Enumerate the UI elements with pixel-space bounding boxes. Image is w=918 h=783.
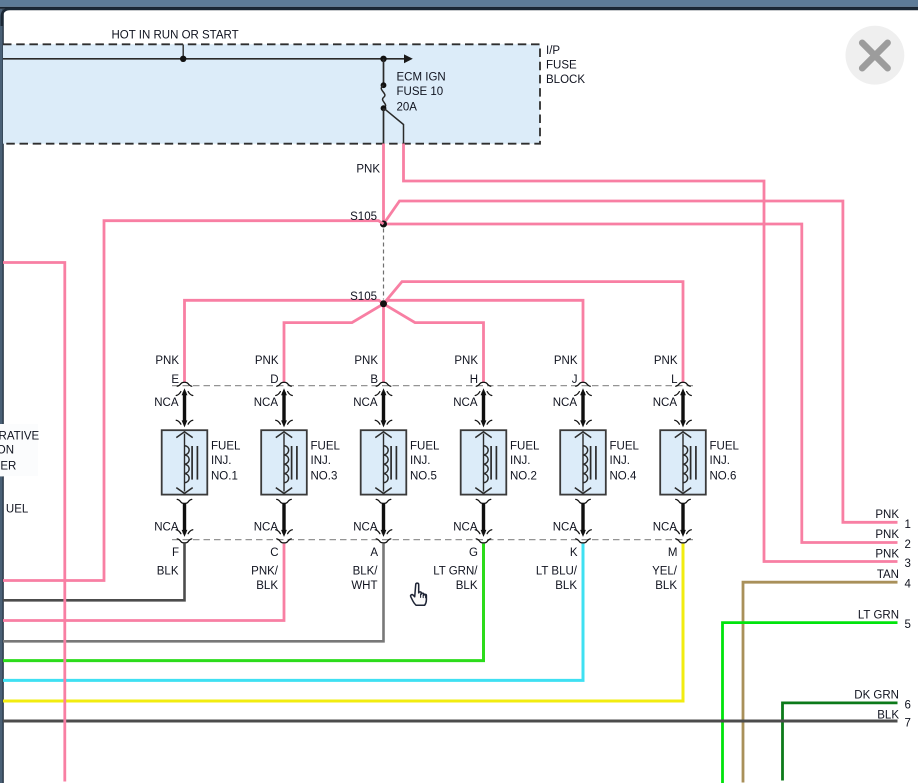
wire: fuse output right diagonal xyxy=(384,109,403,144)
label fuse ECM IGN FUSE 10 20A xyxy=(397,71,446,113)
svg-text:LT GRN/: LT GRN/ xyxy=(433,565,478,577)
svg-text:YEL/: YEL/ xyxy=(652,565,678,577)
wire LT GRN to pin 5 xyxy=(723,623,898,783)
wire BLK from pin F xyxy=(3,544,185,601)
splice S105 dashed link xyxy=(383,229,385,300)
svg-text:RATIVE: RATIVE xyxy=(0,431,40,443)
svg-text:TAN: TAN xyxy=(877,569,899,581)
connector pin G (bottom male) xyxy=(475,530,492,537)
wire: injector NO.6 return xyxy=(681,504,684,534)
wire: injector NO.1 return xyxy=(183,504,186,534)
fuel injector NO.6 xyxy=(660,430,706,494)
svg-text:NCA: NCA xyxy=(453,521,478,533)
svg-text:INJ.: INJ. xyxy=(311,455,331,467)
connector pin D (top female) xyxy=(277,382,292,386)
wire LT BLU/BLK from pin K xyxy=(3,544,583,681)
node: stub junction xyxy=(180,56,186,62)
svg-text:S105: S105 xyxy=(350,211,377,223)
injector NO.1 top plug xyxy=(176,420,193,427)
connector pin M (bottom female) xyxy=(676,539,691,543)
wire PNK/BLK from pin C xyxy=(3,544,284,621)
svg-text:E: E xyxy=(171,374,179,386)
wire: injector NO.2 coil feed xyxy=(482,392,485,422)
svg-text:FUEL: FUEL xyxy=(610,440,640,452)
connector pin K (bottom female) xyxy=(576,539,591,543)
injector NO.3 bottom socket xyxy=(277,499,292,503)
connector pin D (top male) xyxy=(276,388,293,395)
svg-text:NCA: NCA xyxy=(453,397,478,409)
fuel injector NO.2 xyxy=(461,430,507,494)
connector pin E (top male) xyxy=(176,388,193,395)
connector pin M (bottom male) xyxy=(675,530,692,537)
svg-text:INJ.: INJ. xyxy=(410,455,430,467)
svg-text:6: 6 xyxy=(905,699,911,711)
svg-text:PNK: PNK xyxy=(454,355,478,367)
svg-text:4: 4 xyxy=(905,579,912,591)
svg-text:FUEL: FUEL xyxy=(311,440,341,452)
labels column NO.5 xyxy=(351,355,440,592)
fuel injector NO.1 xyxy=(162,430,208,494)
svg-text:FUEL: FUEL xyxy=(510,440,540,452)
svg-text:D: D xyxy=(270,374,278,386)
svg-text:FUSE: FUSE xyxy=(546,60,577,72)
node: fuse tap junction xyxy=(380,56,386,62)
wire PNK: S105 to injector pin D xyxy=(284,304,384,382)
svg-text:BLK: BLK xyxy=(456,580,478,592)
svg-text:UEL: UEL xyxy=(6,503,29,515)
svg-text:NO.4: NO.4 xyxy=(610,470,637,482)
injector NO.6 bottom socket xyxy=(676,499,691,503)
labels column NO.6 xyxy=(652,355,739,592)
window title bar xyxy=(0,0,918,9)
svg-text:FUEL: FUEL xyxy=(211,440,241,452)
wire PNK: fuse to splice S105 xyxy=(382,144,385,225)
connector pin F (bottom male) xyxy=(176,530,193,537)
svg-text:PNK: PNK xyxy=(654,355,678,367)
svg-text:FUSE 10: FUSE 10 xyxy=(397,86,444,98)
svg-text:NO.5: NO.5 xyxy=(410,470,437,482)
connector pin L (top female) xyxy=(676,382,691,386)
label I/P FUSE BLOCK xyxy=(546,45,585,86)
svg-text:S105: S105 xyxy=(350,291,377,303)
connector dashed line top row xyxy=(172,385,695,387)
svg-text:NO.3: NO.3 xyxy=(311,470,338,482)
connector pin B (top female) xyxy=(376,382,391,386)
labels column NO.4 xyxy=(536,355,640,592)
injector NO.4 top plug xyxy=(575,420,592,427)
svg-text:J: J xyxy=(572,374,578,386)
wire: injector NO.5 coil feed xyxy=(382,392,385,422)
svg-text:PNK: PNK xyxy=(554,355,578,367)
svg-text:NCA: NCA xyxy=(353,397,378,409)
wire: injector NO.3 return xyxy=(282,504,285,534)
svg-text:F: F xyxy=(172,547,179,559)
wire PNK: S105 to injector pin E xyxy=(185,300,384,382)
connector pin G (bottom female) xyxy=(476,539,491,543)
svg-text:A: A xyxy=(370,547,378,559)
svg-text:NO.1: NO.1 xyxy=(211,470,238,482)
connector pin B (top male) xyxy=(375,388,392,395)
wire BLK to pin 7 xyxy=(3,720,898,723)
svg-text:ON: ON xyxy=(0,444,14,456)
injector NO.2 bottom socket xyxy=(476,499,491,503)
labels column NO.3 xyxy=(251,355,340,592)
connector pin A (bottom female) xyxy=(376,539,391,543)
connector pin C (bottom female) xyxy=(277,539,292,543)
wire PNK: S105 branch to connector pin 1 xyxy=(384,201,898,522)
svg-text:PNK: PNK xyxy=(354,355,378,367)
fuse ECM IGN FUSE 10 20A element xyxy=(381,82,387,111)
svg-text:M: M xyxy=(668,547,678,559)
mouse cursor xyxy=(411,583,427,605)
wire: injector NO.3 coil feed xyxy=(282,392,285,422)
wire PNK: left edge drop xyxy=(3,263,65,782)
svg-text:PNK: PNK xyxy=(356,164,380,176)
svg-text:BLK: BLK xyxy=(256,580,278,592)
svg-text:PNK: PNK xyxy=(875,529,899,541)
svg-text:INJ.: INJ. xyxy=(211,455,231,467)
svg-text:INJ.: INJ. xyxy=(510,455,530,467)
svg-text:BLK: BLK xyxy=(157,565,179,577)
injector NO.5 top plug xyxy=(375,420,392,427)
wire: injector NO.1 coil feed xyxy=(183,392,186,422)
svg-text:WHT: WHT xyxy=(351,580,377,592)
svg-text:BLK: BLK xyxy=(555,580,577,592)
svg-text:LT BLU/: LT BLU/ xyxy=(536,565,578,577)
wire BLK/WHT from pin A xyxy=(3,544,384,642)
svg-text:NCA: NCA xyxy=(154,521,179,533)
svg-text:NCA: NCA xyxy=(254,397,279,409)
svg-text:I/P: I/P xyxy=(546,45,560,57)
svg-text:7: 7 xyxy=(905,718,911,730)
wire: injector NO.2 return xyxy=(482,504,485,534)
svg-text:ER: ER xyxy=(0,460,16,472)
wire: fuse output left xyxy=(383,108,385,144)
svg-text:5: 5 xyxy=(905,619,911,631)
wire LT GRN/BLK from pin G xyxy=(3,544,484,661)
svg-text:H: H xyxy=(470,374,478,386)
wire: injector NO.5 return xyxy=(382,504,385,534)
wire PNK: S105 branch to connector pin 2 xyxy=(384,224,898,543)
connector pin K (bottom male) xyxy=(575,530,592,537)
close button xyxy=(846,26,905,85)
svg-text:PNK/: PNK/ xyxy=(251,565,279,577)
labels column NO.2 xyxy=(433,355,540,592)
svg-text:NCA: NCA xyxy=(353,521,378,533)
wire PNK: S105 branch to left harness xyxy=(3,221,384,581)
svg-text:20A: 20A xyxy=(397,101,418,113)
svg-text:NO.6: NO.6 xyxy=(710,470,737,482)
svg-text:C: C xyxy=(270,547,278,559)
wire: hot feed horizontal xyxy=(3,54,413,63)
svg-text:DK GRN: DK GRN xyxy=(854,690,899,702)
connector dashed line bottom row xyxy=(172,539,695,541)
left clipped labels xyxy=(0,431,40,516)
connector pin H (top female) xyxy=(476,382,491,386)
svg-text:2: 2 xyxy=(905,539,911,551)
svg-text:PNK: PNK xyxy=(875,509,899,521)
connector pin H (top male) xyxy=(475,388,492,395)
wire: injector NO.4 coil feed xyxy=(581,392,584,422)
fuel injector NO.3 xyxy=(261,430,307,494)
svg-text:NCA: NCA xyxy=(653,521,678,533)
connector pin C (bottom male) xyxy=(276,530,293,537)
svg-text:PNK: PNK xyxy=(155,355,179,367)
wire YEL/BLK from pin M xyxy=(3,544,683,701)
injector NO.1 bottom socket xyxy=(177,499,192,503)
svg-text:LT GRN: LT GRN xyxy=(858,609,899,621)
injector NO.5 bottom socket xyxy=(376,499,391,503)
connector pin E (top female) xyxy=(177,382,192,386)
wire DK GRN to pin 6 xyxy=(783,703,898,781)
connector pin L (top male) xyxy=(675,388,692,395)
svg-text:3: 3 xyxy=(905,558,911,570)
injector NO.2 top plug xyxy=(475,420,492,427)
labels column NO.1 xyxy=(154,355,241,577)
svg-text:BLK: BLK xyxy=(655,580,677,592)
wire: injector NO.6 coil feed xyxy=(681,392,684,422)
svg-text:BLOCK: BLOCK xyxy=(546,74,585,86)
injector NO.6 top plug xyxy=(675,420,692,427)
svg-text:B: B xyxy=(370,374,378,386)
connector pin F (bottom female) xyxy=(177,539,192,543)
svg-text:BLK: BLK xyxy=(877,709,899,721)
svg-text:NCA: NCA xyxy=(154,397,179,409)
svg-text:K: K xyxy=(570,547,578,559)
connector pin J (top female) xyxy=(576,382,591,386)
svg-text:FUEL: FUEL xyxy=(410,440,440,452)
svg-text:BLK/: BLK/ xyxy=(353,565,379,577)
splice S105 (lower) xyxy=(380,300,387,307)
svg-text:PNK: PNK xyxy=(875,548,899,560)
wire: label stub xyxy=(182,45,184,59)
left component box (clipped) xyxy=(0,424,38,476)
svg-text:INJ.: INJ. xyxy=(610,455,630,467)
svg-text:NO.2: NO.2 xyxy=(510,470,537,482)
wire TAN to pin 4 xyxy=(743,582,898,782)
svg-text:INJ.: INJ. xyxy=(710,455,730,467)
svg-text:NCA: NCA xyxy=(254,521,279,533)
splice S105 (upper) xyxy=(380,221,387,228)
svg-text:HOT IN RUN OR START: HOT IN RUN OR START xyxy=(112,30,239,42)
wire: fuse feed vertical xyxy=(383,59,385,85)
wire PNK: fuse branch to connector pin 3 xyxy=(404,144,898,562)
connector pin A (bottom male) xyxy=(375,530,392,537)
wire: injector NO.4 return xyxy=(581,504,584,534)
svg-text:FUEL: FUEL xyxy=(710,440,740,452)
fuel injector NO.4 xyxy=(560,430,606,494)
svg-text:NCA: NCA xyxy=(653,397,678,409)
svg-text:ECM IGN: ECM IGN xyxy=(397,71,446,83)
svg-text:NCA: NCA xyxy=(553,397,578,409)
svg-text:PNK: PNK xyxy=(255,355,279,367)
wire PNK: S105 to injector pin L xyxy=(384,282,684,382)
svg-text:L: L xyxy=(671,374,678,386)
fuel injector NO.5 xyxy=(361,430,407,494)
connector pin J (top male) xyxy=(575,388,592,395)
injector NO.4 bottom socket xyxy=(576,499,591,503)
svg-text:G: G xyxy=(469,547,478,559)
injector NO.3 top plug xyxy=(276,420,293,427)
wire PNK: S105 to injector pin H xyxy=(384,304,484,382)
wire PNK: S105 to injector pin J xyxy=(384,300,584,382)
svg-text:NCA: NCA xyxy=(553,521,578,533)
svg-text:1: 1 xyxy=(905,519,911,531)
right harness pin labels xyxy=(854,509,911,730)
wire PNK: S105 to injector pin B xyxy=(382,304,385,382)
I/P fuse block box xyxy=(3,44,540,143)
